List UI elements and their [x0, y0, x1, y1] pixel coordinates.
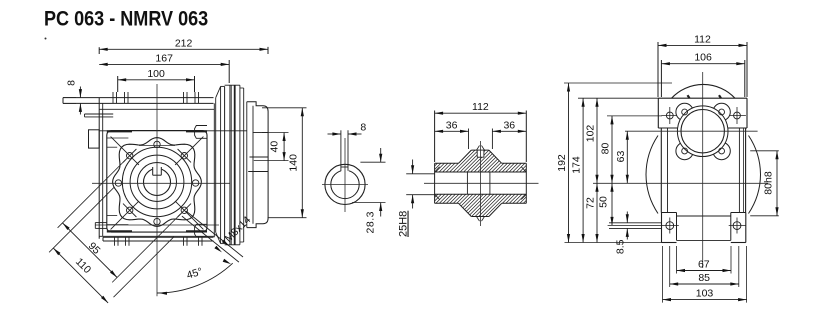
svg-text:8: 8	[66, 80, 78, 86]
dim 100	[117, 76, 119, 92]
clover holes	[682, 109, 688, 115]
bore keyway	[152, 166, 161, 174]
dim 36 left	[468, 129, 470, 150]
left view horizontal centerline	[92, 182, 230, 184]
svg-text:25H8: 25H8	[398, 211, 410, 237]
svg-text:PC 063 - NMRV 063: PC 063 - NMRV 063	[44, 7, 208, 31]
svg-text:102: 102	[585, 125, 597, 143]
svg-text:174: 174	[571, 156, 583, 174]
dim 72	[596, 183, 598, 242]
dim 192	[568, 83, 570, 243]
svg-text:36: 36	[503, 119, 515, 131]
input bell slant bottom	[216, 232, 221, 243]
bottom right plug boss	[195, 224, 207, 237]
dim 80	[611, 116, 613, 183]
motor flange disc stack	[221, 85, 225, 87]
left view top mounting rail	[63, 97, 214, 99]
body face square	[107, 131, 207, 233]
svg-text:36: 36	[446, 119, 458, 131]
svg-text:167: 167	[155, 52, 173, 64]
dim 112 shaft	[434, 111, 436, 163]
diagonal dim 110	[49, 187, 114, 252]
svg-text:67: 67	[698, 259, 710, 271]
svg-text:112: 112	[694, 33, 711, 45]
band top tick marks	[688, 95, 690, 98]
svg-text:8.5: 8.5	[615, 239, 627, 254]
dim 40 input	[262, 132, 289, 134]
right view centerlines	[702, 72, 704, 268]
foot holes	[666, 222, 674, 230]
left view vertical centerline	[156, 84, 158, 296]
svg-text:192: 192	[556, 154, 568, 172]
svg-text:106: 106	[694, 52, 712, 64]
left plug tab	[85, 113, 114, 115]
shaft end outer circle	[325, 164, 365, 204]
body right edge	[213, 103, 215, 237]
top right plug boss	[195, 126, 207, 139]
flange bolt holes	[154, 141, 160, 147]
dim 174	[582, 98, 584, 242]
bottom hole centerline	[95, 224, 219, 226]
dim 106	[660, 60, 662, 97]
section bore lines	[435, 171, 527, 173]
right view top arc	[672, 84, 736, 98]
flange band	[658, 97, 747, 99]
svg-text:80h8: 80h8	[763, 171, 775, 195]
thick face bands upper	[107, 130, 132, 132]
foot slot lines	[609, 222, 662, 224]
band lug holes	[666, 112, 673, 119]
thick face bands lower	[107, 230, 132, 232]
section hub	[459, 150, 472, 163]
dim 8.5	[626, 212, 628, 223]
left view bottom mounting rail	[103, 236, 214, 238]
view2 centerlines	[322, 183, 368, 185]
flange flower outline	[113, 138, 202, 227]
dim stack extension lines	[564, 82, 672, 84]
svg-text:28.3: 28.3	[365, 211, 377, 233]
section end chamfers	[435, 167, 440, 172]
input bell slant top	[216, 86, 221, 97]
svg-text:50: 50	[598, 196, 610, 208]
svg-text:212: 212	[175, 37, 193, 49]
45 degree arc	[157, 263, 233, 293]
svg-text:80: 80	[600, 143, 612, 155]
svg-text:63: 63	[615, 151, 627, 163]
feet	[662, 212, 677, 214]
dim 212	[98, 47, 100, 54]
section hub keyway slot	[477, 151, 484, 158]
svg-text:72: 72	[585, 197, 597, 209]
dim 67	[676, 246, 678, 274]
dim 8 keyway width	[328, 133, 341, 135]
dim 63	[626, 131, 628, 183]
dim 102	[596, 98, 598, 183]
stray dot	[45, 38, 47, 40]
output bore	[144, 169, 171, 196]
section centerlines	[424, 182, 539, 184]
dim 167	[228, 60, 230, 83]
right body sides	[660, 128, 662, 213]
side boss bulge left	[646, 136, 658, 214]
svg-text:112: 112	[472, 101, 489, 113]
gearbox body outer edges	[98, 98, 100, 239]
svg-text:85: 85	[698, 272, 710, 284]
dim 140 input	[262, 107, 307, 109]
dim 28.3	[360, 161, 385, 163]
bottom left tab	[95, 222, 107, 224]
M8x14 leader	[186, 211, 243, 257]
motor flange clover	[676, 103, 693, 120]
svg-text:8: 8	[360, 122, 366, 134]
shaft end bore	[331, 170, 359, 198]
bottom rail bolt ticks	[114, 237, 116, 246]
input shaft lines in cap	[253, 132, 269, 134]
dim 112 right view	[657, 42, 659, 97]
dim 36 right	[491, 129, 493, 150]
input spigot circles	[677, 106, 728, 157]
svg-text:40: 40	[269, 141, 281, 153]
diagonal dim 95	[58, 160, 126, 228]
dim 103	[662, 246, 664, 303]
svg-text:103: 103	[696, 288, 714, 300]
shaft keyway slot	[341, 168, 349, 172]
svg-text:140: 140	[288, 154, 300, 172]
cross marks on tapped holes	[175, 137, 203, 165]
dim 50	[611, 183, 613, 225]
body upper horizontal line	[99, 130, 247, 132]
dim 25H8	[406, 173, 434, 175]
svg-text:100: 100	[147, 68, 165, 80]
dim 80h8	[750, 150, 779, 152]
section keyway marks	[477, 146, 480, 151]
dim 8 rail thickness	[79, 87, 81, 98]
top rail bolt ticks	[112, 92, 114, 103]
top hole centerline	[139, 145, 175, 147]
section bore middle verticals	[466, 172, 468, 194]
dim 85	[669, 246, 671, 287]
face casting lines	[107, 137, 129, 139]
section outline	[435, 162, 459, 164]
flange circles	[122, 147, 191, 216]
left side plug boss	[89, 130, 100, 148]
side boss bulge right	[749, 136, 761, 214]
input end cap	[246, 102, 248, 228]
